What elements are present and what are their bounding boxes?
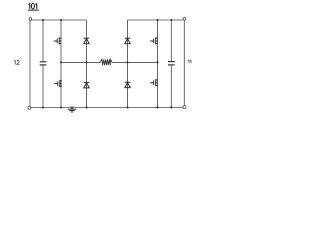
terminal circle bottom-right xyxy=(183,106,186,109)
junction dots xyxy=(42,19,172,109)
terminal circle bottom-left xyxy=(28,106,31,109)
wire: right port vertical (source 11) xyxy=(183,20,185,105)
diode D1 (top-left) xyxy=(84,38,90,44)
wire: mid rail right segment xyxy=(112,61,157,63)
capacitor C1 xyxy=(40,62,47,65)
terminal circle top-left xyxy=(29,18,32,21)
diode D2 (bottom-left) xyxy=(84,82,90,88)
wire: capacitor C1 branch lower xyxy=(42,65,44,107)
diode D3 (top-right) xyxy=(125,38,131,44)
node 12 (left port label) xyxy=(14,60,19,64)
wire: left port vertical (source 12) xyxy=(29,20,31,106)
transistor Q4 (bottom-right MOSFET) xyxy=(150,79,158,86)
junction bottom rail / Q4 xyxy=(157,107,159,109)
wire: transistor leg left (Q1/Q2 branch) xyxy=(60,20,62,108)
wire: left top rail xyxy=(31,19,87,21)
junction mid rail / D leg left xyxy=(86,61,88,63)
label 101 xyxy=(28,3,39,10)
transistor Q3 (top-right MOSFET) xyxy=(150,37,158,44)
wire: diode leg left (D1/D2 branch) xyxy=(86,20,88,108)
junction top rail / C1 xyxy=(42,19,44,21)
wire: transistor leg right (Q3/Q4 branch) xyxy=(157,20,159,108)
inductor L1 xyxy=(100,59,112,65)
wire: diode leg right (D3/D4 branch) xyxy=(127,20,129,108)
junction bottom rail / D4 xyxy=(127,107,129,109)
junction mid rail / D leg right xyxy=(127,61,129,63)
transistor Q1 (top-left MOSFET) xyxy=(54,37,62,44)
junction bottom rail / C2 xyxy=(170,107,172,109)
wire: capacitor C2 branch lower xyxy=(170,65,172,107)
junction bottom rail / ground xyxy=(71,107,73,109)
wire: right top rail xyxy=(128,19,184,21)
junction mid rail / Q leg right xyxy=(157,61,159,63)
wire: bottom rail xyxy=(31,107,183,109)
junction mid rail / Q leg left xyxy=(60,61,62,63)
wire: mid rail left segment xyxy=(61,61,100,63)
junction bottom rail / Q2 xyxy=(60,107,62,109)
junction top rail / C2 xyxy=(170,19,172,21)
terminal circle top-right xyxy=(183,18,186,21)
wire: capacitor C1 branch upper xyxy=(42,20,44,61)
junction top rail / Q3 xyxy=(157,19,159,21)
junction bottom rail / C1 xyxy=(42,107,44,109)
node 11 (right port label) xyxy=(188,60,191,64)
wire: capacitor C2 branch upper xyxy=(170,20,172,61)
junction bottom rail / D2 xyxy=(86,107,88,109)
ground xyxy=(68,108,76,113)
junction top rail / Q1 xyxy=(60,19,62,21)
capacitor C2 xyxy=(168,62,175,65)
diode D4 (bottom-right) xyxy=(125,82,131,88)
transistor Q2 (bottom-left MOSFET) xyxy=(54,80,62,87)
